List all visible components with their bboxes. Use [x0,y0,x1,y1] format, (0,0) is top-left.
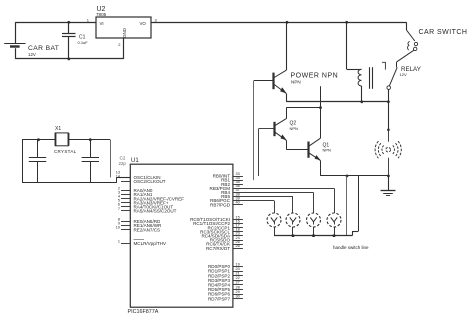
relay RELAY coil [358,67,372,102]
wire top rail battery to U2 VI [15,22,96,24]
pin 29 RD6/PSP6 [208,290,243,297]
crystal X1 [54,126,77,154]
node junction coil bottom [360,100,363,103]
pin 6 RA4/T0CKI/C1OUT [118,203,174,210]
pin 3 RA1/AN1 [118,190,153,197]
regulator U2 7805 [87,6,158,47]
svg-text:12V: 12V [28,52,36,57]
pin 22 RD3/PSP3 [208,276,243,283]
MCU U1 PIC16F877A body [128,158,233,315]
pin 17 RC2/CCP1 [208,224,243,231]
pin 27 RD4/PSP4 [208,281,243,288]
switch CAR SWITCH [407,22,468,50]
pin 4 RA2/AN2/VREF-/CVREF [118,195,184,202]
svg-text:7: 7 [118,207,120,211]
capacitor C3 [29,140,46,182]
wire RB6 to sensor 1 [233,201,275,214]
pin 30 RD7/PSP7 [208,295,243,302]
pin 5 RA3/AN3/VREF+ [118,199,169,206]
wire sensor rail riser [352,176,359,236]
pin 19 RD0/PSP0 [208,262,243,269]
node junction C1 top [67,21,70,24]
svg-text:26: 26 [236,244,240,248]
svg-text:RE2/AN7/CS: RE2/AN7/CS [134,227,161,232]
node junction relay common [387,100,390,103]
pin 37 RB4 [221,188,243,195]
pin 15 RC0/T1OSO/T1CKI [190,215,243,222]
wire Q1 emitter long to ground node [320,175,389,177]
pin 25 RC6/TX/CK [206,240,243,247]
svg-text:RA5/AN4/SS/C2OUT: RA5/AN4/SS/C2OUT [134,209,177,214]
svg-text:U1: U1 [131,158,139,164]
node junction rail to power npn collector [286,21,289,24]
pin 24 RC5/SDO [210,236,243,243]
capacitor C1 [62,22,88,59]
pin 33 RB0/INT [213,172,243,179]
transistor Q2 [275,119,299,141]
pin 34 RB1 [221,176,243,183]
sensor switch 3 [307,213,321,236]
wire crystal right to OSC1 [110,140,112,178]
svg-text:22: 22 [236,276,240,280]
pin 38 RB5 [221,192,243,199]
wire U2 VO output rail [151,22,407,24]
wire relay common to speaker [388,102,390,130]
pin 40 RB7/PGD [210,201,243,208]
svg-text:29: 29 [236,290,240,294]
svg-text:1: 1 [118,239,120,243]
svg-text:28: 28 [236,285,240,289]
pin 23 RC4/SDI/SDA [201,232,242,239]
pin 13 OSC1/CLKIN [116,170,161,180]
ground [381,191,396,196]
svg-text:GND: GND [122,28,127,38]
sensor switch 1 [267,213,281,236]
svg-text:10: 10 [116,226,120,230]
wire Q2 collector to node [286,108,320,119]
svg-text:21: 21 [236,272,240,276]
svg-text:POWER NPN: POWER NPN [291,73,339,80]
svg-text:NPN: NPN [291,80,301,85]
node junction sensor 2 [292,234,295,237]
wire POWER NPN base to RB1 [254,81,274,181]
svg-text:OSC2/CLKOUT: OSC2/CLKOUT [134,179,166,184]
node junction sensor return [346,175,349,178]
svg-text:VI: VI [100,21,104,26]
svg-text:NPN: NPN [290,126,299,131]
transistor Q1 [309,138,332,160]
pin 7 RA5/AN4/SS/C2OUT [118,207,177,214]
battery CAR BAT [4,22,59,59]
svg-text:VO: VO [140,21,147,26]
svg-text:PIC16F877A: PIC16F877A [128,309,159,315]
svg-text:22p: 22p [119,161,127,166]
wire relay common down [388,89,390,101]
svg-text:0.1uF: 0.1uF [78,40,89,45]
wire car switch to relay contact [397,50,414,67]
wire Q1 emitter down [320,160,322,176]
node junction right cap [89,138,92,141]
wire Q2 emitter to Q1 base [286,140,308,149]
wire RB5 to sensor 2 [233,197,293,214]
relay contact and arm [382,62,421,89]
wire ground rail battery to U2 GND [15,38,123,59]
wire Q1 collector up [320,86,322,138]
pin 26 RC7/RX/DT [206,244,243,251]
wire RB4 to sensor 3 [233,192,314,213]
wire crystal top [22,139,110,141]
wire sensor rail [274,235,352,237]
svg-text:CRYSTAL: CRYSTAL [54,149,77,154]
wire crystal ground rail [22,177,130,182]
svg-text:NPN: NPN [323,148,332,153]
wire Q2 base to RB0 [259,129,275,177]
pin 14 OSC2/CLKOUT [116,174,166,184]
pin 36 RB3/PGM [210,184,243,191]
svg-text:40: 40 [236,201,240,205]
pin 2 RA0/AN0 [118,186,153,193]
pin 20 RD1/PSP1 [208,267,243,274]
pin 10 RE2/AN7/CS [116,226,160,233]
wire crystal left down [22,140,24,182]
svg-text:RD7/PSP7: RD7/PSP7 [208,296,230,301]
pin 9 RE1/AN6/WR [118,221,162,228]
svg-text:30: 30 [236,295,240,299]
svg-text:19: 19 [236,262,240,266]
pin 21 RD2/PSP2 [208,272,243,279]
wire rail to relay coil top [347,22,362,69]
svg-text:12V: 12V [400,72,407,77]
wire to ground [388,176,390,191]
pin 8 RE0/AN5/RD [118,217,161,224]
svg-text:RB7/PGD: RB7/PGD [210,202,231,207]
svg-text:handle switch line: handle switch line [333,245,369,250]
node junction speaker bottom [387,175,390,178]
node junction left cap [37,138,40,141]
transistor POWER NPN [274,22,339,102]
node junction rail to relay coil [345,21,348,24]
label switch line [333,245,369,250]
node junction Q1 collector [319,106,322,109]
svg-text:CAR SWITCH: CAR SWITCH [419,29,468,36]
svg-text:27: 27 [236,281,240,285]
svg-text:X1: X1 [55,126,61,132]
svg-text:14: 14 [116,174,120,178]
svg-text:20: 20 [236,267,240,271]
pin 16 RC1/T1OSI/CCP2 [193,219,243,226]
node junction speaker top [387,129,390,132]
pin 1 MCLR/Vpp/THV [118,239,167,246]
capacitor C2 [82,140,127,182]
pin 18 RC3/SCK/SCL [200,228,243,235]
svg-text:C2: C2 [120,156,126,161]
sensor switch 4 [327,213,341,236]
pin 28 RD5/PSP5 [208,285,243,292]
wire RB3 to sensor 4 [233,188,335,213]
node junction C1 bottom [67,58,70,61]
svg-text:MCLR/Vpp/THV: MCLR/Vpp/THV [134,241,168,246]
node junction sensor 4 [333,234,336,237]
svg-text:RC7/RX/DT: RC7/RX/DT [206,246,230,251]
wire emitter rail to relay [286,101,388,103]
wire sensor return down [346,176,348,236]
node junction sensor 3 [312,234,315,237]
pin 35 RB2 [221,180,243,187]
speaker sounder LS1 [375,130,401,176]
sensor switch 2 [286,213,300,236]
svg-text:7805: 7805 [96,12,107,17]
pin 39 RB6/PGC [210,196,243,203]
